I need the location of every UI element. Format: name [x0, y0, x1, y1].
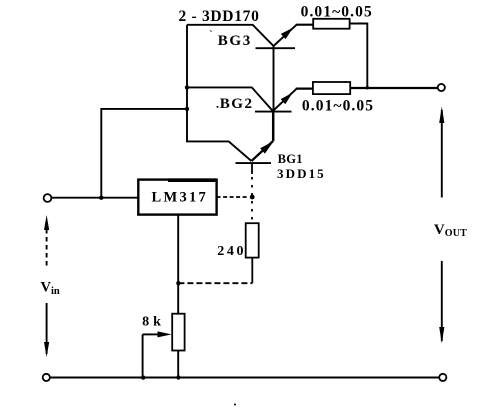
svg-text:3DD15: 3DD15 [277, 166, 326, 181]
svg-text:8k: 8k [142, 314, 165, 329]
svg-text:240: 240 [217, 244, 246, 259]
svg-text:LM317: LM317 [152, 190, 209, 206]
svg-text:`: ` [209, 29, 213, 41]
svg-text:BG1: BG1 [278, 152, 303, 166]
svg-text:2 - 3DD170: 2 - 3DD170 [179, 8, 260, 25]
svg-text:BG2: BG2 [220, 96, 254, 112]
svg-text:0.01~0.05: 0.01~0.05 [302, 97, 374, 114]
svg-text:BG3: BG3 [218, 33, 252, 49]
svg-text:0.01~0.05: 0.01~0.05 [301, 3, 373, 20]
